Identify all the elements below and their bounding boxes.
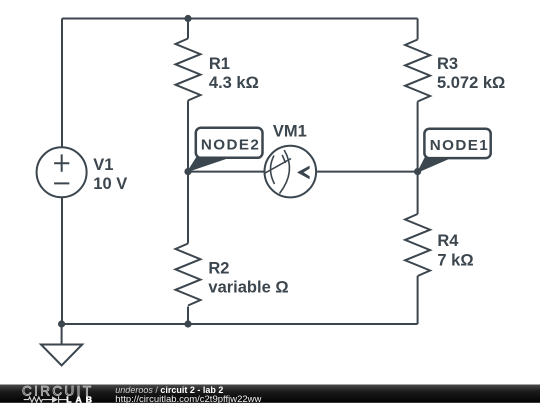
wire R4 to bottom rail xyxy=(417,276,419,324)
node NODE2 callout pointer xyxy=(188,158,229,172)
svg-text:7 kΩ: 7 kΩ xyxy=(437,251,473,269)
svg-text:4.3 kΩ: 4.3 kΩ xyxy=(209,74,259,92)
ground xyxy=(41,324,82,366)
wire R3 to node1 xyxy=(417,102,419,172)
footer logo doodle xyxy=(24,396,67,403)
wire top rail xyxy=(62,18,418,20)
svg-text:V1: V1 xyxy=(93,156,113,174)
svg-text:R1: R1 xyxy=(209,55,230,73)
svg-text:variable Ω: variable Ω xyxy=(208,279,288,297)
wire node2 to R2 xyxy=(187,172,189,244)
voltmeter VM1 dial xyxy=(265,150,291,194)
junction dot node2 xyxy=(184,168,191,175)
resistor R3 xyxy=(405,40,430,102)
wire left rail lower (V1 to ground node) xyxy=(61,197,63,324)
wire node1 to R4 xyxy=(417,172,419,214)
voltage source V1 xyxy=(37,147,87,197)
wire right branch upper stub xyxy=(417,19,419,40)
junction dot bottom R2 xyxy=(184,320,191,327)
svg-text:5.072 kΩ: 5.072 kΩ xyxy=(437,74,505,92)
svg-text:NODE2: NODE2 xyxy=(201,137,260,154)
junction dot top xyxy=(184,15,191,22)
wire R1 to node2 xyxy=(187,101,189,172)
resistor R2 xyxy=(176,244,201,306)
voltmeter VM1 body xyxy=(265,146,317,198)
wire middle branch upper stub xyxy=(187,19,189,39)
svg-text:10 V: 10 V xyxy=(93,175,127,193)
resistor R1 xyxy=(176,39,201,101)
wire left rail upper (top to V1) xyxy=(61,19,63,148)
label V1 xyxy=(93,55,505,297)
wire R2 to bottom rail xyxy=(187,307,189,325)
wire voltmeter to node1 xyxy=(316,171,418,173)
node NODE1 callout pointer xyxy=(418,158,450,172)
node NODE2 label box xyxy=(196,128,263,158)
junction dot node1 xyxy=(414,168,421,175)
svg-text:NODE1: NODE1 xyxy=(430,137,489,154)
voltmeter VM1 V glyph xyxy=(297,166,310,180)
svg-text:http://circuitlab.com/c2t9pffj: http://circuitlab.com/c2t9pffjw22ww xyxy=(115,394,261,405)
svg-text:LAB: LAB xyxy=(66,395,96,405)
svg-text:R4: R4 xyxy=(437,232,459,250)
svg-text:R2: R2 xyxy=(208,259,229,277)
footer bar xyxy=(0,385,540,403)
wire node2 to voltmeter xyxy=(188,171,265,173)
junction dot ground xyxy=(58,320,65,327)
resistor R4 xyxy=(405,214,430,276)
svg-text:VM1: VM1 xyxy=(273,123,307,141)
node NODE1 label box xyxy=(424,129,490,158)
wire bottom rail xyxy=(62,323,418,325)
svg-text:R3: R3 xyxy=(437,55,458,73)
